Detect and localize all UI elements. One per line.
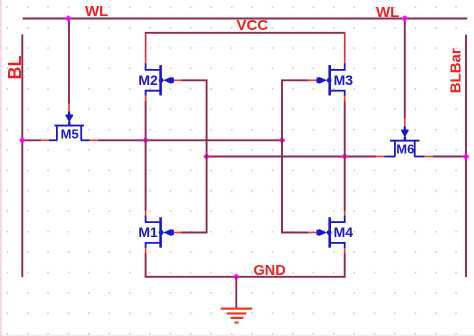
- svg-text:M1: M1: [138, 224, 158, 240]
- transistor M2: [138, 58, 181, 102]
- node VCC label: [237, 17, 269, 34]
- node GND label: [254, 263, 286, 279]
- node BLBar label: [448, 48, 465, 93]
- wire row node QBar to BLBar through M6: [207, 156, 466, 158]
- wire M4 source to GND rail: [344, 253, 346, 278]
- net GND rail: [145, 276, 346, 278]
- transistor M1: [138, 211, 181, 254]
- net VCC rail: [145, 32, 346, 34]
- svg-text:BLBar: BLBar: [448, 48, 465, 93]
- junction node QBar on row: [341, 153, 348, 160]
- junction WL / M6 drop: [401, 15, 408, 22]
- svg-text:M2: M2: [138, 72, 158, 88]
- wire M1 source to GND rail: [145, 253, 147, 278]
- svg-text:GND: GND: [254, 263, 286, 279]
- junction WL / M5 drop: [65, 15, 72, 22]
- wire cross-couple column M2/M1 gates: [182, 80, 207, 232]
- wire WL horizontal: [23, 18, 468, 20]
- wire BLBar vertical: [465, 35, 467, 277]
- svg-text:M6: M6: [396, 142, 414, 157]
- wire node QBar column: [344, 101, 346, 211]
- node BL label: [5, 56, 25, 80]
- transistor M3: [309, 58, 354, 102]
- wire cross-couple column M3/M4 gates: [282, 80, 309, 232]
- svg-text:BL: BL: [5, 56, 25, 80]
- ground: [221, 277, 252, 323]
- node WL label right: [376, 4, 399, 21]
- transistor M5: [41, 104, 98, 142]
- junction BLBar / M6 row: [463, 153, 470, 160]
- transistor M4: [309, 211, 354, 254]
- svg-text:M5: M5: [61, 127, 79, 142]
- svg-text:WL: WL: [85, 3, 108, 20]
- junction BL / M5 row: [19, 137, 26, 144]
- junction M3-M4 gate column on row: [279, 137, 286, 144]
- wire node Q column: [145, 101, 147, 211]
- wire WL drop to M5 gate: [68, 19, 70, 104]
- wire VCC drop to M2: [145, 33, 147, 58]
- svg-text:M3: M3: [334, 72, 354, 88]
- junction M2-M1 gate column on row: [203, 153, 210, 160]
- svg-text:VCC: VCC: [237, 17, 269, 34]
- node WL label left: [85, 3, 108, 20]
- junction node Q on row: [142, 137, 149, 144]
- wire WL drop to M6 gate: [404, 19, 406, 119]
- wire bit row BL to node Q through M5: [22, 139, 282, 141]
- svg-text:M4: M4: [334, 224, 354, 240]
- junction GND rail / ground: [233, 273, 240, 280]
- wire VCC drop to M3: [344, 33, 346, 58]
- svg-text:WL: WL: [376, 4, 399, 21]
- transistor M6: [376, 118, 433, 157]
- wire BL vertical: [21, 35, 23, 278]
